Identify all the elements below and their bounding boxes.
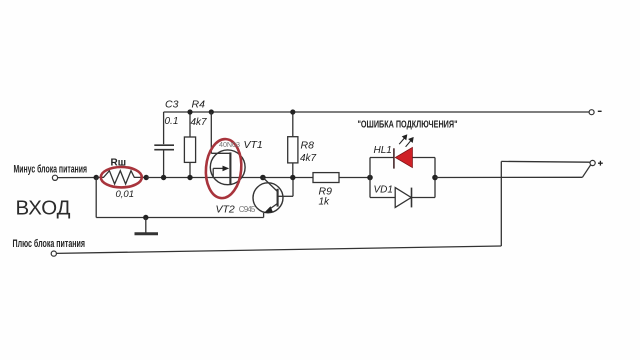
svg-text:C945: C945 (239, 205, 256, 214)
svg-text:0,01: 0,01 (116, 189, 135, 200)
terminal: plus input (left open circle) (51, 251, 56, 256)
svg-text:VD1: VD1 (374, 185, 393, 196)
wire: LED pair right branch vertical (434, 158, 436, 198)
terminal: minus output (right open circle) (589, 110, 594, 115)
svg-text:R8: R8 (301, 140, 315, 152)
svg-text:R4: R4 (192, 99, 206, 111)
wire: main middle rail (Rш to LED left node) (146, 177, 370, 179)
svg-text:0.1: 0.1 (165, 116, 179, 127)
wire: top rail (164, 111, 589, 113)
svg-text:C3: C3 (165, 99, 179, 111)
wire: rail from LED pair to plus terminal diagonal (435, 176, 582, 178)
svg-text:VT2: VT2 (216, 204, 235, 216)
transistor VT2 (NPN C945) (253, 178, 293, 218)
svg-text:4k7: 4k7 (191, 117, 208, 128)
svg-text:Rш: Rш (111, 158, 127, 169)
label: - (598, 110, 602, 112)
svg-text:"ОШИБКА ПОДКЛЮЧЕНИЯ": "ОШИБКА ПОДКЛЮЧЕНИЯ" (358, 120, 458, 131)
node: R8 top junction dot (290, 109, 295, 114)
svg-text:VT1: VT1 (244, 139, 263, 151)
resistor R9 (horizontal) (313, 173, 339, 183)
wire: HL1 branch top leads (370, 157, 394, 159)
label: + (598, 161, 603, 166)
resistor Rш (shunt zigzag) (96, 171, 146, 184)
node: VT1 drain top junction dot (209, 109, 214, 114)
terminal: minus input (left open circle) (52, 175, 57, 180)
wire: node A down left vertical (95, 178, 97, 218)
transistor VT1 (MOSFET in circle) (210, 112, 245, 185)
svg-text:ВХОД: ВХОД (16, 197, 71, 220)
svg-text:Плюс блока питания: Плюс блока питания (13, 238, 86, 250)
highlight: red ellipse around VT1 (203, 138, 243, 200)
resistor R4 (184, 112, 195, 178)
node: R8 bottom junction dot (290, 175, 295, 180)
wire: feedback vertical (500, 161, 502, 246)
HL1 light rays (arrows) (399, 135, 413, 147)
svg-text:40N03: 40N03 (219, 140, 240, 149)
terminal: plus output (right open circle) (590, 160, 595, 165)
node: R4 bottom junction dot (187, 175, 192, 180)
wire: LED pair left branch vertical (369, 158, 371, 198)
wire: bottom long wire to plus input (56, 246, 501, 253)
wire: bottom rail to VT2 emitter (96, 217, 263, 219)
node A junction dot (94, 175, 99, 180)
svg-text:HL1: HL1 (374, 145, 392, 156)
LED HL1 (red, cathode bar left) (394, 147, 413, 168)
svg-text:1k: 1k (319, 197, 331, 208)
highlight: red ellipse around Rш (101, 167, 142, 187)
capacitor C3 (154, 112, 174, 178)
node: VT2 base junction dot (260, 175, 266, 181)
diode VD1 (cathode bar right) (395, 188, 411, 208)
node: LED pair right junction dot (432, 175, 438, 181)
svg-text:4k7: 4k7 (300, 153, 317, 164)
node: R4 top junction dot (187, 109, 192, 114)
node: Rш right junction dot (144, 175, 149, 180)
resistor R8 (288, 112, 298, 178)
ground (135, 218, 159, 234)
svg-text:Минус блока питания: Минус блока питания (14, 164, 88, 176)
node: LED pair left junction dot (367, 175, 373, 181)
node: ground junction dot (143, 215, 148, 220)
wire: diagonal up to plus terminal (582, 165, 590, 178)
node: C3 bottom junction dot (161, 175, 166, 180)
wire: VD1 branch leads (370, 197, 395, 199)
wire: minus input to node A (58, 177, 97, 179)
wire: plus terminal feedback top (501, 160, 590, 163)
